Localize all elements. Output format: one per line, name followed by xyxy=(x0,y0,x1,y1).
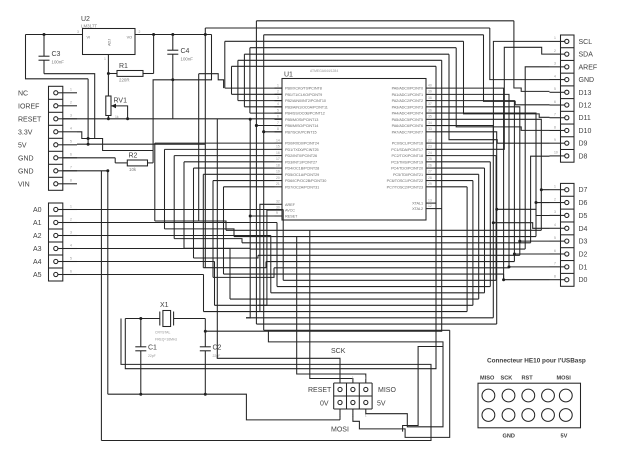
wire ISP RESET up xyxy=(217,119,340,383)
wire right 5V drop xyxy=(490,28,550,80)
wire PB tail xyxy=(264,131,282,133)
svg-text:MOSI: MOSI xyxy=(331,427,349,434)
svg-text:5: 5 xyxy=(70,140,72,144)
wire PC4 down xyxy=(484,168,486,293)
wire PA1 right xyxy=(434,94,510,266)
svg-text:D11: D11 xyxy=(579,115,591,122)
wire U1 AVCC route xyxy=(258,210,274,305)
svg-text:PB3/AIN1/OC0A/PCINT11: PB3/AIN1/OC0A/PCINT11 xyxy=(285,105,328,109)
svg-text:PA4/ADC4/PCINT4: PA4/ADC4/PCINT4 xyxy=(392,112,423,116)
svg-text:R2: R2 xyxy=(129,153,138,160)
wire far-left vertical 3 xyxy=(183,162,185,248)
U1 pin 19 PD5 xyxy=(275,170,320,177)
svg-text:RST: RST xyxy=(522,376,534,382)
wire mesh row 7 xyxy=(224,273,504,275)
pin A0 of P2 xyxy=(33,204,77,214)
svg-text:19: 19 xyxy=(276,170,280,174)
svg-text:GND: GND xyxy=(18,155,34,162)
wire PB tail xyxy=(250,112,282,114)
U1 pin 5 PB4 xyxy=(275,108,325,115)
U1 pin 12 XTAL2 xyxy=(412,204,433,211)
U1 pin 13 XTAL1 xyxy=(412,198,433,205)
wire A3 drop xyxy=(229,249,231,300)
node PA5 join xyxy=(540,188,543,191)
U1 pin 28 PC6 xyxy=(387,176,434,183)
svg-text:D10: D10 xyxy=(579,128,592,135)
pin AREF of P3 xyxy=(554,62,597,72)
pin A5 of P2 xyxy=(33,269,77,279)
svg-text:5: 5 xyxy=(277,108,279,112)
svg-text:220R: 220R xyxy=(119,78,130,83)
node PA6 join xyxy=(492,221,495,224)
wire PC5 down xyxy=(478,174,480,299)
wire D13 feed xyxy=(514,21,550,92)
label MOSI HE10 xyxy=(557,376,572,382)
svg-text:VIN: VIN xyxy=(18,181,30,188)
node SCK junction xyxy=(262,130,265,133)
pin 5V of P1 xyxy=(18,140,77,150)
svg-text:PB1/T1/CLKO/PCINT9: PB1/T1/CLKO/PCINT9 xyxy=(285,93,322,97)
svg-text:PC1/SDA/PCINT17: PC1/SDA/PCINT17 xyxy=(391,148,423,152)
pin GND of P3 xyxy=(554,74,594,84)
wire PC5 right xyxy=(434,173,479,175)
wire GND wrap right xyxy=(403,347,443,432)
node MOSI junction xyxy=(249,118,252,121)
svg-text:4: 4 xyxy=(70,127,72,131)
wire GND rail xyxy=(108,394,340,420)
svg-text:5: 5 xyxy=(554,236,556,240)
wire mesh row 14 xyxy=(246,317,493,319)
svg-text:9: 9 xyxy=(554,138,556,142)
pin D3 of P4 xyxy=(554,236,588,246)
wire U1 RESET link xyxy=(250,215,274,217)
wire VO rail xyxy=(135,34,212,36)
svg-text:PC2/TCK/PCINT18: PC2/TCK/PCINT18 xyxy=(391,154,423,158)
svg-text:7: 7 xyxy=(554,113,556,117)
wire far-left vertical 0 xyxy=(154,143,156,221)
svg-text:3.3V: 3.3V xyxy=(18,129,33,136)
U1 pin 34 PA6 xyxy=(392,121,434,128)
wire GND2 pin xyxy=(63,171,108,394)
label RST HE10 xyxy=(522,376,534,382)
svg-text:GND: GND xyxy=(579,77,595,84)
wire D9 feed xyxy=(449,54,550,143)
svg-text:7: 7 xyxy=(277,121,279,125)
pin D6 of P4 xyxy=(554,197,588,207)
wire D7 riser xyxy=(541,190,549,231)
wire MISO to ISP xyxy=(297,324,366,383)
pin D7 of P4 xyxy=(554,185,588,195)
wire SCK drop xyxy=(263,132,265,330)
svg-text:PA1/ADC1/PCINT1: PA1/ADC1/PCINT1 xyxy=(392,93,423,97)
wire PD5 route xyxy=(203,173,274,175)
wire XTAL2 drop xyxy=(205,60,441,331)
wire top bus y=60.3 xyxy=(238,59,442,61)
wire far-left vertical 5 xyxy=(202,174,204,267)
svg-text:D7: D7 xyxy=(579,187,588,194)
svg-text:D2: D2 xyxy=(579,251,588,258)
pin A1 of P2 xyxy=(33,217,77,227)
pin number xyxy=(339,376,341,418)
label MOSI xyxy=(331,427,349,434)
U1 pin 8 PB7 xyxy=(275,127,317,134)
U1 pin 23 PC1 xyxy=(391,145,433,152)
U1 pin 40 PA0 xyxy=(392,83,434,90)
capacitor C2 (22pF) xyxy=(200,319,222,395)
svg-text:22: 22 xyxy=(428,138,432,142)
U1 pin 20 PD6 xyxy=(275,176,327,183)
svg-text:100nF: 100nF xyxy=(52,60,65,65)
wire XTAL1 route xyxy=(434,202,437,204)
wire PB tail xyxy=(244,106,282,108)
wire A1 xyxy=(77,222,277,224)
U1 pin 35 PA5 xyxy=(392,115,434,122)
svg-text:2: 2 xyxy=(554,49,556,53)
microcontroller U1 (ATMEGA644/1284) body xyxy=(282,69,426,220)
svg-text:5V: 5V xyxy=(18,142,27,149)
wire mesh row 2 xyxy=(242,242,531,244)
svg-text:15: 15 xyxy=(276,145,280,149)
wire far-left horizontal 6 xyxy=(213,268,274,278)
svg-text:RESET: RESET xyxy=(285,215,298,219)
wire D6 riser xyxy=(536,203,550,237)
wire PA3 right xyxy=(434,107,520,241)
label MISO HE10 xyxy=(480,376,495,382)
svg-text:3: 3 xyxy=(277,96,279,100)
U1 pin 38 PA2 xyxy=(392,96,434,103)
label GND HE10 xyxy=(503,434,515,440)
pin RESET of P1 xyxy=(18,114,77,124)
svg-text:SCL: SCL xyxy=(579,39,593,46)
pin GND of P1 xyxy=(18,166,77,176)
pin GND of P1 xyxy=(18,153,77,163)
svg-text:C4: C4 xyxy=(181,48,190,55)
U1 pin 22 PC0 xyxy=(392,138,434,145)
wire PC7 right xyxy=(434,186,468,188)
svg-text:17: 17 xyxy=(276,157,280,161)
svg-text:1: 1 xyxy=(70,204,72,208)
label 5V xyxy=(377,401,386,408)
svg-text:100nF: 100nF xyxy=(181,57,194,62)
svg-text:7: 7 xyxy=(70,166,72,170)
node PB junction xyxy=(262,130,265,133)
wire mesh row 3 xyxy=(250,248,525,250)
wire PA4 right xyxy=(434,113,537,202)
U1 pin 26 PC4 xyxy=(391,163,433,170)
wire D11 feed xyxy=(464,41,550,117)
svg-text:D5: D5 xyxy=(579,213,588,220)
svg-text:34: 34 xyxy=(428,121,432,125)
U1 pin 24 PC2 xyxy=(391,151,433,158)
wire PB riser xyxy=(255,21,257,126)
wire far-left vertical 1 xyxy=(164,149,166,229)
wire SCK jog xyxy=(309,230,311,330)
wire PD1 route xyxy=(165,148,275,150)
svg-text:GND: GND xyxy=(503,434,515,440)
wire VI rail xyxy=(26,34,83,36)
label SCK HE10 xyxy=(501,376,513,382)
node GND2 junction xyxy=(106,169,109,172)
svg-text:D4: D4 xyxy=(579,226,588,233)
wire mesh row 11 xyxy=(230,298,479,300)
wire SCK to ISP xyxy=(310,330,353,383)
wire PD0 route xyxy=(155,142,275,144)
node PA3 join xyxy=(518,240,521,243)
svg-text:A0: A0 xyxy=(33,207,42,214)
svg-text:35: 35 xyxy=(428,115,432,119)
svg-text:25: 25 xyxy=(428,157,432,161)
wire A2 xyxy=(77,235,271,237)
U1 pin 1 PB0 xyxy=(275,83,322,90)
svg-text:A1: A1 xyxy=(33,220,42,227)
node C1 bottom junction xyxy=(139,393,142,396)
wire 5V main vertical xyxy=(204,28,206,268)
svg-text:PD1/TXD0/PCINT25: PD1/TXD0/PCINT25 xyxy=(285,148,319,152)
label title xyxy=(487,358,586,365)
node PA0 join xyxy=(502,278,505,281)
svg-text:RESET: RESET xyxy=(18,116,42,123)
pin A3 of P2 xyxy=(33,243,77,253)
svg-text:33: 33 xyxy=(428,127,432,131)
svg-text:PB0/XCK0/T0/PCINT8: PB0/XCK0/T0/PCINT8 xyxy=(285,87,322,91)
wire MISO drop xyxy=(255,126,257,325)
wire PB riser xyxy=(237,60,239,100)
svg-text:26: 26 xyxy=(428,163,432,167)
wire mesh row 10 xyxy=(271,292,485,294)
pin 3.3V of P1 xyxy=(18,127,77,137)
svg-text:40: 40 xyxy=(428,83,432,87)
svg-text:6: 6 xyxy=(277,115,279,119)
node X1 left junction xyxy=(139,317,142,320)
svg-text:6: 6 xyxy=(70,153,72,157)
svg-text:14: 14 xyxy=(276,138,280,142)
wire mesh row 4 xyxy=(258,254,520,256)
label MISO xyxy=(378,387,396,394)
U1 pin 9 RESET xyxy=(275,211,299,218)
svg-text:8: 8 xyxy=(554,125,556,129)
capacitor C1 (22pF) xyxy=(135,319,157,395)
wire ISP 0V down xyxy=(339,409,341,420)
svg-text:C1: C1 xyxy=(148,345,157,352)
U1 pin 39 PA1 xyxy=(392,90,434,97)
pin D4 of P4 xyxy=(554,223,588,233)
wire A5 xyxy=(77,274,204,276)
svg-text:PA5/ADC5/PCINT5: PA5/ADC5/PCINT5 xyxy=(392,118,423,122)
svg-text:AREF: AREF xyxy=(579,64,598,71)
connector P1 (power header) xyxy=(49,86,63,190)
svg-text:ADJ: ADJ xyxy=(108,39,112,46)
svg-text:IOREF: IOREF xyxy=(18,103,39,110)
svg-text:29: 29 xyxy=(428,182,432,186)
wire 5V pin xyxy=(77,143,205,145)
pin A4 of P2 xyxy=(33,256,77,266)
wire D0 riser xyxy=(504,274,550,280)
wire PB tail xyxy=(256,125,282,127)
svg-text:4: 4 xyxy=(277,102,279,106)
node R1 junction on VO rail xyxy=(152,33,155,36)
wire PB riser xyxy=(224,41,226,88)
wire U1 AREF route xyxy=(258,204,274,311)
wire mesh row 1 xyxy=(234,236,536,238)
svg-text:PC0/SCL/PCINT16: PC0/SCL/PCINT16 xyxy=(392,142,423,146)
svg-text:RV1: RV1 xyxy=(114,98,128,105)
svg-text:1: 1 xyxy=(352,376,354,380)
svg-text:3: 3 xyxy=(77,30,79,34)
svg-text:A5: A5 xyxy=(33,272,42,279)
svg-text:13: 13 xyxy=(428,198,432,202)
wire far-left vertical 2 xyxy=(173,156,175,239)
wire mesh row 12 xyxy=(215,304,473,306)
U1 pin 4 PB3 xyxy=(275,102,328,109)
U1 pin 27 PC5 xyxy=(393,170,434,177)
U1 pin 3 PB2 xyxy=(275,96,326,103)
node PB junction xyxy=(255,124,258,127)
svg-text:6: 6 xyxy=(554,100,556,104)
svg-text:XTAL2: XTAL2 xyxy=(412,207,423,211)
wire PA5 right xyxy=(434,119,542,189)
wire RESET rail xyxy=(63,118,282,120)
svg-text:FREQ=16MHz: FREQ=16MHz xyxy=(155,338,177,342)
svg-text:30: 30 xyxy=(276,205,280,209)
U1 pin 21 PD7 xyxy=(275,182,320,189)
wire A4 drop xyxy=(214,262,216,306)
U1 pin 37 PA3 xyxy=(392,102,434,109)
wire mesh row 0 xyxy=(226,229,541,231)
pin SCL of P3 xyxy=(554,36,592,46)
pin A2 of P2 xyxy=(33,230,77,240)
svg-text:3: 3 xyxy=(554,210,556,214)
svg-text:PC6/TOSC1/PCINT22: PC6/TOSC1/PCINT22 xyxy=(387,179,423,183)
wire SCL link xyxy=(434,41,550,143)
wire SDA link xyxy=(434,47,550,149)
node PA7 join xyxy=(495,208,498,211)
wire ISP MOSI down xyxy=(353,330,450,437)
wire PC2 right xyxy=(434,155,497,157)
wire mesh row 9 xyxy=(277,286,490,288)
svg-text:39: 39 xyxy=(428,90,432,94)
connector HE10 (USBasp) xyxy=(478,383,581,428)
wire MOSI drop xyxy=(246,119,250,318)
svg-text:5: 5 xyxy=(554,87,556,91)
node RV1 bottom junction xyxy=(107,117,110,120)
svg-text:37: 37 xyxy=(428,102,432,106)
svg-text:PB2/AIN0/INT2/PCINT10: PB2/AIN0/INT2/PCINT10 xyxy=(285,99,326,103)
wire XTAL2 route xyxy=(434,208,442,210)
wire far-left horizontal 4 xyxy=(194,255,259,258)
node PA2 join xyxy=(513,252,516,255)
wire MISO jog xyxy=(296,237,298,325)
svg-text:10k: 10k xyxy=(129,167,137,172)
svg-text:D12: D12 xyxy=(579,103,592,110)
svg-text:23: 23 xyxy=(428,145,432,149)
svg-text:6: 6 xyxy=(554,249,556,253)
wire PD7 route xyxy=(224,186,275,188)
wire PB riser xyxy=(231,66,233,94)
svg-text:6: 6 xyxy=(70,269,72,273)
wire far-left horizontal 1 xyxy=(165,229,235,237)
wire A0 xyxy=(77,209,283,211)
wire A5 drop xyxy=(203,275,205,312)
resistor R1 (220R) xyxy=(108,35,153,83)
svg-text:4: 4 xyxy=(70,243,72,247)
wire top bus y=66.3 xyxy=(232,65,437,67)
node PA4 join xyxy=(535,201,538,204)
wire PB tail xyxy=(225,87,282,89)
node MISO junction xyxy=(255,124,258,127)
wire PD7 drop xyxy=(223,187,225,274)
potentiometer RV1 xyxy=(106,96,128,119)
wire jog A xyxy=(199,74,224,88)
resistor R2 (10k) xyxy=(115,153,153,173)
wire PC6 down xyxy=(472,181,474,306)
wire D2 riser xyxy=(514,254,549,262)
label RESET xyxy=(308,387,332,394)
wire jog A drop xyxy=(198,74,200,221)
U1 pin 14 PD0 xyxy=(275,138,319,145)
connector P3 (digital header D8-D13) xyxy=(550,35,575,162)
svg-text:A2: A2 xyxy=(33,233,42,240)
node C2 bottom junction xyxy=(204,393,207,396)
voltage regulator U2 (LM317T) xyxy=(77,16,141,61)
svg-text:SCK: SCK xyxy=(501,376,513,382)
svg-text:PD2/INT0/PCINT26: PD2/INT0/PCINT26 xyxy=(285,154,317,158)
svg-text:4: 4 xyxy=(554,74,556,78)
svg-text:D9: D9 xyxy=(579,141,588,148)
pin D0 of P4 xyxy=(554,274,588,284)
svg-text:SCK: SCK xyxy=(331,348,346,355)
svg-text:3: 3 xyxy=(70,230,72,234)
svg-text:18: 18 xyxy=(276,163,280,167)
svg-text:1: 1 xyxy=(277,83,279,87)
svg-text:38: 38 xyxy=(428,96,432,100)
node ADJ junction xyxy=(107,72,110,75)
wire D4 jog xyxy=(493,223,549,318)
wire mesh row 13 xyxy=(204,311,468,313)
svg-text:22pF: 22pF xyxy=(148,354,156,358)
wire mesh row 16 xyxy=(264,329,450,331)
svg-text:36: 36 xyxy=(428,108,432,112)
node 3.3V junction xyxy=(87,137,90,140)
svg-text:RESET: RESET xyxy=(308,387,332,394)
node PA1 join xyxy=(508,265,511,268)
svg-text:4: 4 xyxy=(554,223,556,227)
wire mesh row 6 xyxy=(274,267,509,269)
svg-text:8: 8 xyxy=(277,127,279,131)
svg-text:CRYSTAL: CRYSTAL xyxy=(155,331,170,335)
svg-text:PA3/ADC3/PCINT3: PA3/ADC3/PCINT3 xyxy=(392,105,423,109)
svg-text:PC7/TOSC2/PCINT23: PC7/TOSC2/PCINT23 xyxy=(387,185,423,189)
wire PC7 down xyxy=(466,187,468,312)
pin D12 of P3 xyxy=(554,100,591,110)
svg-text:3: 3 xyxy=(554,62,556,66)
svg-text:VI: VI xyxy=(87,36,90,40)
pin SDA of P3 xyxy=(554,49,593,59)
svg-text:1: 1 xyxy=(365,376,367,380)
svg-text:D13: D13 xyxy=(579,90,592,97)
svg-text:D6: D6 xyxy=(579,200,588,207)
wire AREF riser xyxy=(525,67,549,249)
pin D5 of P4 xyxy=(554,210,588,220)
svg-text:PD0/RXD0/PCINT24: PD0/RXD0/PCINT24 xyxy=(285,142,319,146)
crystal X1 (16MHz) xyxy=(125,302,205,342)
svg-text:8: 8 xyxy=(554,274,556,278)
svg-text:MISO: MISO xyxy=(378,387,396,394)
svg-text:D8: D8 xyxy=(579,153,588,160)
node U1 RESET junction xyxy=(249,215,252,218)
wire far-left vertical 6 xyxy=(212,181,214,278)
svg-text:U2: U2 xyxy=(81,16,90,23)
svg-text:7: 7 xyxy=(554,262,556,266)
